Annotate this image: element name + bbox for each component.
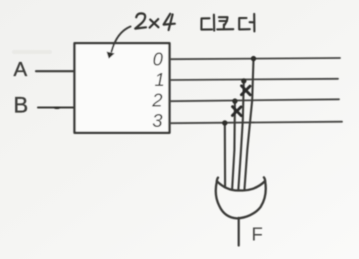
svg-text:B: B (14, 93, 29, 118)
svg-text:F: F (252, 223, 263, 244)
svg-text:A: A (14, 58, 28, 81)
svg-text:2: 2 (151, 89, 163, 110)
svg-text:3: 3 (152, 110, 163, 131)
svg-text:0: 0 (153, 48, 164, 69)
svg-text:1: 1 (155, 69, 165, 90)
